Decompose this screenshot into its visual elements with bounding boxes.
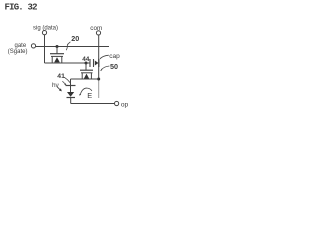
svg-text:FIG. 32: FIG. 32 (5, 3, 38, 13)
junction dot gate line / Q1 gate (56, 45, 59, 48)
capacitor cap (90, 59, 94, 67)
transistor Q2 (driver) (80, 63, 93, 79)
wire Q2 source rail (71, 78, 99, 80)
wire Q2 to EL element (70, 79, 72, 85)
wire output line (71, 103, 115, 105)
leader for 41 (64, 77, 70, 83)
EL element E (diode) (66, 86, 76, 104)
light arrow 1 (62, 81, 65, 84)
svg-text:50: 50 (110, 62, 118, 71)
svg-text:cap: cap (109, 53, 120, 60)
leader for E (80, 88, 92, 95)
light arrow 2 (57, 87, 60, 90)
leader for 50 (101, 66, 110, 71)
wire gate line 20 (horizontal) (36, 46, 109, 48)
diode D1 (to com line) (95, 59, 99, 67)
svg-text:op: op (121, 102, 129, 109)
node A rail wire (sig to capacitor) (45, 62, 91, 64)
junction dot Q2 / com line (97, 78, 100, 81)
svg-text:E: E (87, 91, 92, 100)
terminal op (115, 101, 119, 105)
wire sig line (vertical) (44, 35, 46, 63)
svg-text:20: 20 (71, 34, 79, 43)
svg-text:hν: hν (52, 82, 59, 89)
transistor Q1 (switching) (50, 47, 64, 64)
svg-text:(Sgate): (Sgate) (8, 49, 28, 55)
leader for 20 (66, 42, 70, 50)
junction dot node A / Q2 gate (85, 62, 88, 65)
svg-text:44: 44 (82, 56, 90, 63)
svg-text:41: 41 (57, 73, 65, 80)
svg-text:com: com (90, 25, 102, 32)
wire com line (vertical) (98, 35, 100, 80)
leader for cap (100, 55, 109, 59)
